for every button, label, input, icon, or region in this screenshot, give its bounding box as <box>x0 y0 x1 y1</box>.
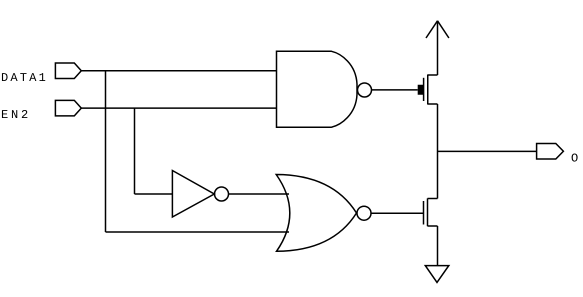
wire DATA1 branch down <box>105 71 107 232</box>
label O <box>572 153 578 161</box>
wire output node to port O <box>438 150 537 152</box>
output port O <box>537 144 564 160</box>
wire NOR output to NMOS gate <box>371 212 424 214</box>
transistor PMOS <box>418 75 438 105</box>
wire NAND output to PMOS gate <box>372 89 418 91</box>
wire EN2 branch to inverter input <box>135 193 173 195</box>
wire EN2 to NAND input B <box>81 107 276 109</box>
wire EN2 branch down <box>134 108 136 194</box>
NOR gate <box>276 175 371 252</box>
wire inverter to NOR input A <box>229 193 290 195</box>
wire PMOS source to NMOS drain <box>437 104 439 199</box>
transistor NMOS <box>424 198 438 226</box>
wire DATA1 branch to NOR input B <box>106 231 290 233</box>
power VDD <box>426 21 449 75</box>
wire NMOS source to ground <box>437 226 439 266</box>
NAND gate <box>277 51 372 127</box>
label DATA1 <box>2 73 45 81</box>
inverter <box>172 171 228 218</box>
input port DATA1 <box>55 63 81 79</box>
label EN2 <box>2 110 27 118</box>
ground <box>425 266 449 283</box>
input port EN2 <box>55 100 81 116</box>
wire DATA1 to NAND input A <box>81 70 276 72</box>
